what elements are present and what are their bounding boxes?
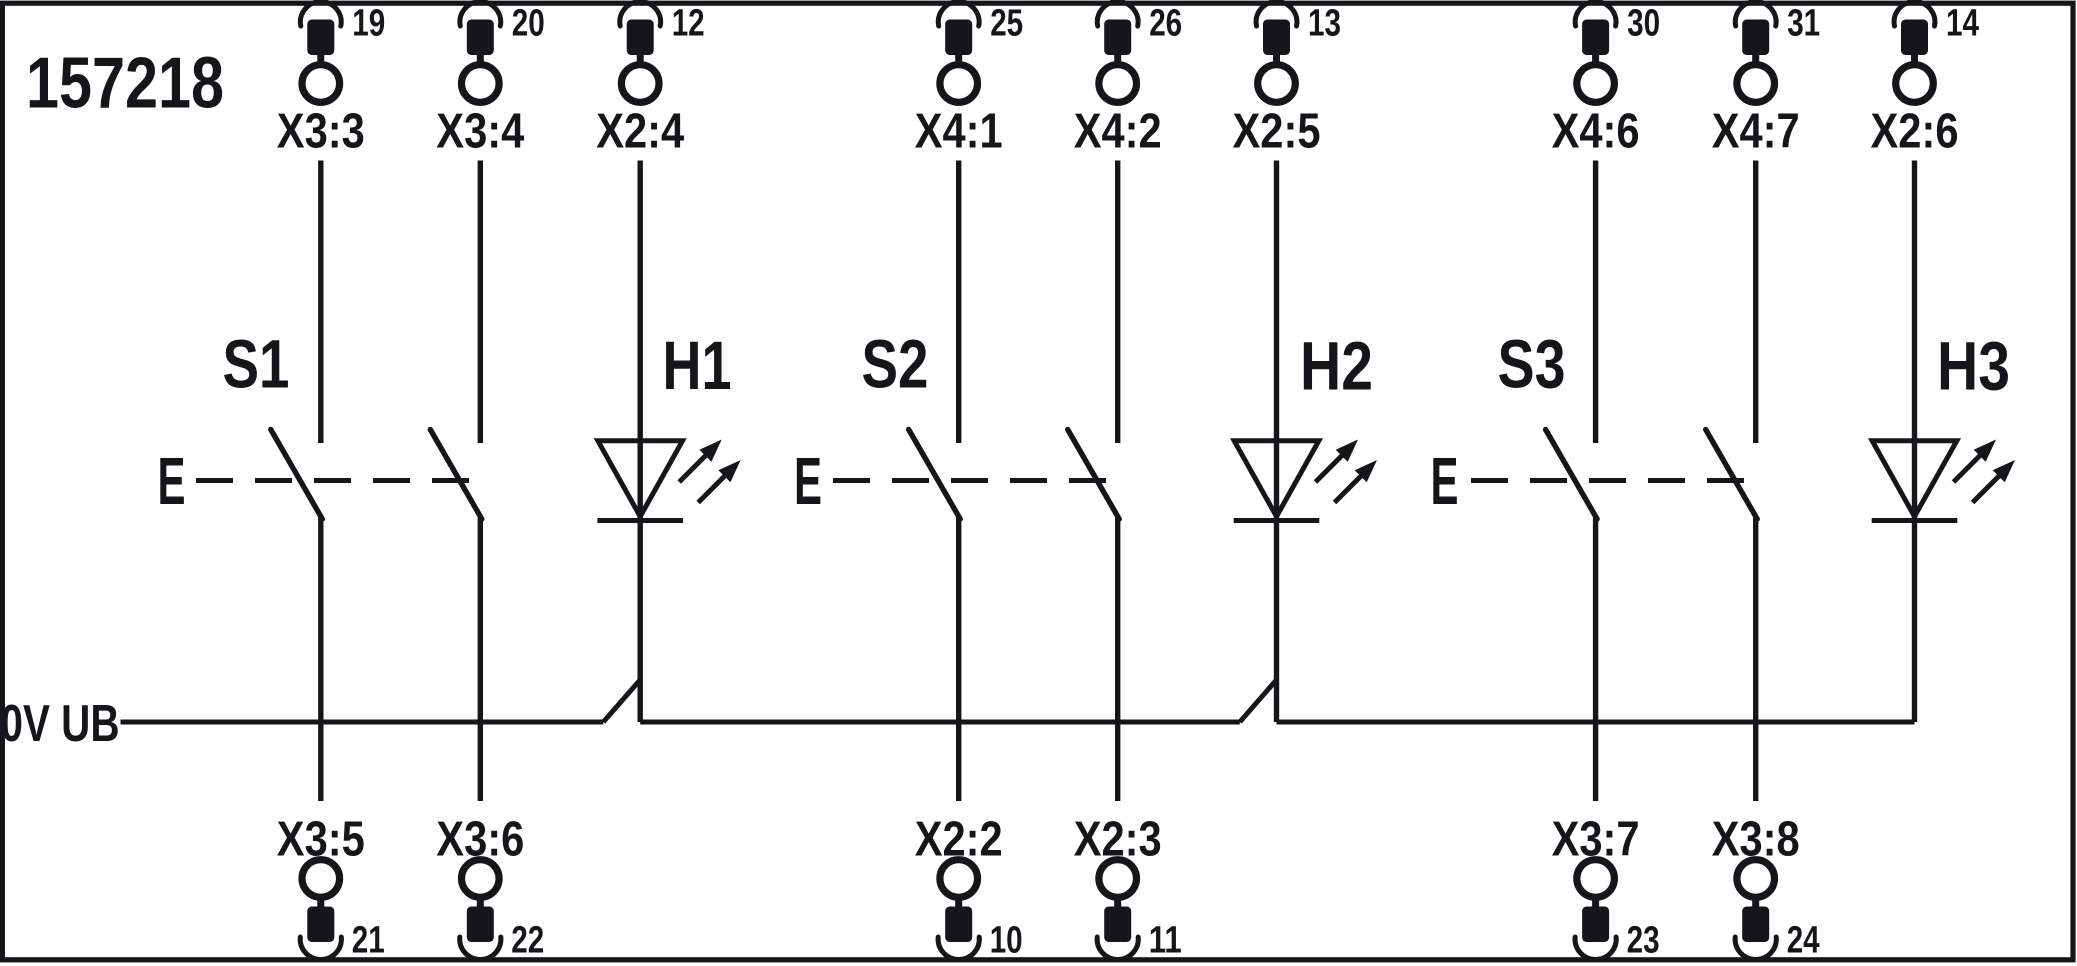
terminal X3:5 (pin 21): [277, 812, 385, 962]
svg-text:X2:2: X2:2: [915, 812, 1003, 867]
terminal X4:7 (pin 31): [1712, 2, 1821, 159]
svg-text:X2:4: X2:4: [596, 104, 684, 159]
svg-text:0V UB: 0V UB: [1, 694, 120, 752]
svg-text:20: 20: [512, 3, 545, 45]
switch blade S1 contact 2: [430, 430, 482, 520]
svg-text:S1: S1: [223, 326, 290, 403]
terminal X3:6 (pin 22): [436, 812, 544, 962]
svg-text:H1: H1: [663, 327, 732, 404]
switch blade S1 contact 1: [271, 430, 323, 520]
terminal X3:7 (pin 23): [1552, 812, 1660, 962]
svg-text:X3:4: X3:4: [436, 104, 524, 159]
wire 0V bus segment 2: [640, 720, 1240, 725]
junction jog H2 to 0V bus: [1240, 680, 1277, 722]
linkage S3 (dashed): [1471, 478, 1746, 483]
wire 0V bus segment 3: [1277, 720, 1915, 725]
switch blade S2 contact 1: [909, 430, 961, 520]
switch blade S2 contact 2: [1068, 430, 1120, 520]
svg-text:22: 22: [511, 920, 544, 962]
wire S3 contact 1 lower contact: [1593, 518, 1598, 802]
svg-text:X3:5: X3:5: [277, 812, 365, 867]
svg-text:11: 11: [1149, 920, 1182, 962]
svg-text:X4:7: X4:7: [1712, 104, 1800, 159]
wire S1 contact 1 upper contact: [318, 161, 323, 444]
svg-text:21: 21: [352, 920, 385, 962]
svg-text:14: 14: [1946, 3, 1979, 45]
wire S2 contact 1 upper contact: [956, 161, 961, 444]
svg-text:S2: S2: [862, 326, 929, 403]
wire S3 contact 2 upper contact: [1753, 161, 1758, 444]
wire S2 contact 2 lower contact: [1115, 518, 1120, 802]
svg-text:23: 23: [1627, 920, 1660, 962]
svg-text:26: 26: [1149, 3, 1182, 45]
svg-text:157218: 157218: [26, 44, 224, 124]
linkage S2 (dashed): [833, 478, 1108, 483]
terminal X2:6 (pin 14): [1871, 2, 1980, 159]
switch blade S3 contact 2: [1706, 430, 1758, 520]
svg-text:X2:6: X2:6: [1871, 104, 1959, 159]
svg-text:25: 25: [990, 3, 1023, 45]
terminal X2:2 (pin 10): [915, 812, 1023, 962]
svg-text:E: E: [158, 444, 186, 519]
wire S2 contact 2 upper contact: [1115, 161, 1120, 444]
LED H1: [597, 440, 740, 521]
svg-text:X4:2: X4:2: [1074, 104, 1162, 159]
svg-text:E: E: [1431, 444, 1459, 519]
terminal X2:4 (pin 12): [596, 2, 705, 159]
junction jog H1 to 0V bus: [603, 680, 640, 722]
wire X2:6 to H3 and down to 0V bus: [1912, 161, 1917, 723]
svg-text:10: 10: [990, 920, 1023, 962]
wire X2:5 to H2 and down to 0V bus: [1274, 161, 1279, 723]
svg-text:30: 30: [1627, 3, 1660, 45]
terminal X2:5 (pin 13): [1233, 2, 1342, 159]
terminal X3:4 (pin 20): [436, 2, 545, 159]
terminal X4:2 (pin 26): [1074, 2, 1183, 159]
wire S3 contact 1 upper contact: [1593, 161, 1598, 444]
wire 0V bus segment 1: [121, 720, 604, 725]
svg-text:19: 19: [352, 3, 385, 45]
svg-text:13: 13: [1308, 3, 1341, 45]
wire S1 contact 2 upper contact: [478, 161, 483, 444]
svg-text:X2:5: X2:5: [1233, 104, 1321, 159]
svg-text:H2: H2: [1300, 328, 1373, 405]
terminal X3:8 (pin 24): [1712, 812, 1820, 962]
svg-text:H3: H3: [1937, 328, 2010, 405]
svg-text:E: E: [794, 444, 822, 519]
svg-text:X2:3: X2:3: [1074, 812, 1162, 867]
terminal X4:6 (pin 30): [1552, 2, 1661, 159]
linkage S1 (dashed): [196, 478, 471, 483]
terminal X3:3 (pin 19): [277, 2, 386, 159]
LED H2: [1234, 440, 1377, 521]
wire S2 contact 1 lower contact: [956, 518, 961, 802]
wire X2:4 to H1 and down to 0V bus: [638, 161, 643, 723]
LED H3: [1872, 440, 2015, 521]
svg-text:X3:8: X3:8: [1712, 812, 1800, 867]
svg-text:X3:3: X3:3: [277, 104, 365, 159]
svg-text:12: 12: [672, 3, 705, 45]
svg-text:X4:1: X4:1: [915, 104, 1003, 159]
wire S3 contact 2 lower contact: [1753, 518, 1758, 802]
svg-text:S3: S3: [1498, 326, 1566, 403]
svg-text:X3:7: X3:7: [1552, 812, 1640, 867]
svg-text:X4:6: X4:6: [1552, 104, 1640, 159]
terminal X2:3 (pin 11): [1074, 812, 1182, 962]
svg-text:X3:6: X3:6: [436, 812, 524, 867]
svg-text:24: 24: [1787, 920, 1820, 962]
wire S1 contact 1 lower contact: [318, 518, 323, 802]
wire S1 contact 2 lower contact: [478, 518, 483, 802]
svg-text:31: 31: [1787, 3, 1820, 45]
switch blade S3 contact 1: [1546, 430, 1598, 520]
terminal X4:1 (pin 25): [915, 2, 1023, 159]
